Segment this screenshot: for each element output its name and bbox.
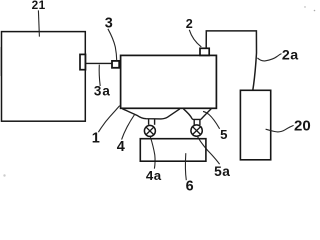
svg-text:5: 5	[220, 127, 227, 142]
leader line for 3a	[99, 65, 100, 86]
leader line for 6	[184, 153, 187, 180]
inlet fitting 3 (small square)	[112, 61, 119, 68]
wire: pipe 3a horizontal	[86, 62, 112, 64]
speckle artifacts	[3, 6, 315, 176]
leader line for 5a	[198, 137, 220, 164]
svg-text:6: 6	[186, 179, 194, 193]
main hopper body 1 (central box)	[121, 55, 217, 108]
wire: pipe 2a (up, across, down to box 20)	[206, 31, 256, 90]
svg-text:2: 2	[186, 17, 193, 31]
svg-text:4a: 4a	[146, 168, 162, 183]
svg-text:3a: 3a	[94, 84, 111, 99]
tank 21 (left box)	[2, 32, 86, 122]
leader line for 5	[203, 111, 220, 128]
svg-text:5a: 5a	[214, 164, 230, 179]
neck of hopper 5	[194, 119, 200, 125]
leader line for 20 (squiggle)	[266, 125, 294, 131]
leader line for 2a (squiggle)	[257, 54, 281, 61]
svg-text:20: 20	[294, 117, 311, 134]
leader line for 4a	[150, 137, 155, 169]
svg-text:2a: 2a	[282, 47, 299, 63]
neck of hopper 4	[149, 119, 155, 125]
svg-text:3: 3	[105, 16, 113, 32]
leader line for 1	[98, 106, 119, 133]
leader line for 2	[189, 30, 201, 47]
outlet nub 2 on top of box 1	[200, 48, 209, 55]
svg-text:4: 4	[117, 139, 125, 155]
leader line for 3	[108, 29, 117, 61]
leader line for 21	[38, 10, 39, 36]
leader line for 4	[122, 115, 135, 140]
tray box 6 (bottom box)	[140, 139, 206, 162]
valve under hopper 5 (circle with X)	[191, 125, 202, 136]
outlet tab 3a on box 21	[80, 54, 86, 69]
collector box 20 (right box)	[240, 90, 270, 160]
valve under hopper 4 (circle with X)	[144, 125, 155, 136]
svg-text:21: 21	[32, 0, 46, 12]
scan smudge at left margin	[0, 47, 1, 76]
hopper 4 (left funnel under box 1)	[122, 109, 179, 119]
svg-text:1: 1	[92, 131, 100, 147]
hopper 5 (right funnel under box 1)	[183, 109, 211, 120]
